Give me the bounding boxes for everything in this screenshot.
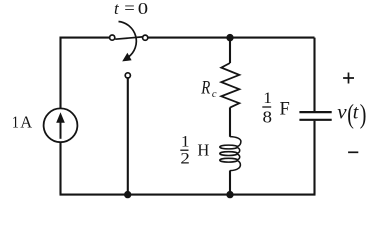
svg-text:v: v	[337, 100, 347, 124]
wire branch top (node to resistor)	[229, 38, 231, 63]
switch contact left	[110, 35, 115, 40]
node dot bottom-left (switch branch)	[124, 191, 131, 198]
switch motion arc	[119, 22, 137, 58]
svg-text:2: 2	[180, 150, 189, 167]
node dot bottom (RL branch)	[226, 191, 233, 198]
inductor L1 coil	[220, 137, 241, 171]
current source arrow	[60, 120, 62, 139]
svg-text:0: 0	[138, 0, 148, 18]
wire right upper (to capacitor)	[313, 38, 315, 112]
svg-text:): )	[360, 99, 367, 130]
switch motion arrowhead	[122, 53, 131, 62]
svg-text:t: t	[114, 0, 120, 18]
capacitor C1 plates	[299, 111, 331, 113]
svg-text:R: R	[200, 77, 210, 98]
svg-text:t: t	[353, 102, 359, 124]
svg-text:H: H	[197, 141, 209, 160]
wire top-right segment	[148, 37, 314, 39]
label + polarity	[343, 73, 354, 84]
svg-text:1: 1	[263, 89, 272, 107]
wire resistor-inductor connection	[229, 107, 231, 136]
node dot top (branch junction)	[226, 34, 233, 41]
switch contact right	[143, 35, 148, 40]
wire right lower (from capacitor)	[313, 121, 315, 195]
svg-text:A: A	[20, 112, 32, 131]
wire switch pole down	[127, 78, 129, 194]
svg-text:c: c	[212, 89, 217, 100]
svg-text:8: 8	[263, 107, 273, 126]
svg-text:F: F	[280, 99, 290, 119]
svg-text:1: 1	[12, 113, 19, 131]
wire branch bottom (inductor to node)	[229, 171, 231, 195]
wire bottom	[60, 194, 316, 196]
switch contact bottom	[125, 73, 130, 78]
svg-text:1: 1	[181, 132, 190, 150]
label - polarity	[348, 151, 358, 153]
resistor Rc zigzag	[221, 63, 239, 108]
wire left lower (below source)	[59, 142, 61, 194]
svg-text:=: =	[124, 0, 135, 17]
current source I1 circle	[44, 108, 78, 142]
switch blade	[115, 37, 142, 39]
wire top-left segment	[61, 38, 110, 109]
